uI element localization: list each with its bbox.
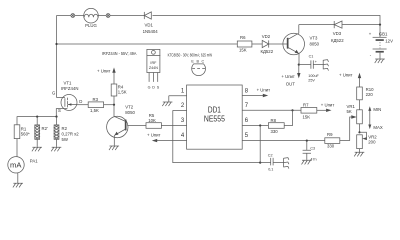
svg-text:0,1: 0,1: [268, 168, 273, 172]
svg-text:+: +: [315, 60, 317, 64]
svg-text:15K: 15K: [303, 114, 311, 119]
svg-text:C3: C3: [310, 146, 315, 150]
text KTC8050 rating: [168, 53, 213, 58]
svg-text:R9: R9: [327, 132, 333, 137]
arrow MAX: [368, 125, 383, 131]
resistor R9 300: [325, 132, 350, 148]
pin 6: [242, 118, 268, 126]
ground below C3: [302, 160, 312, 164]
wire left vertical (gate net): [56, 16, 58, 98]
transistor VT3 8050: [283, 25, 320, 65]
resistor R6 15K: [237, 35, 262, 53]
svg-text:D: D: [79, 99, 82, 104]
power arrow pin 8 +Upit: [242, 87, 270, 97]
svg-text:1,5K: 1,5K: [90, 108, 99, 113]
diode VD1 1N5404: [143, 12, 159, 34]
svg-text:D: D: [152, 85, 155, 89]
connector X1: [71, 14, 75, 18]
wire drain to R3: [77, 104, 88, 106]
ground below VT2: [109, 146, 119, 150]
ground below R2': [32, 147, 42, 151]
svg-text:+ Uпит: + Uпит: [147, 132, 161, 137]
connector fork at C1: [323, 60, 328, 71]
node pin6 junction: [259, 124, 261, 126]
svg-text:R2: R2: [62, 126, 68, 131]
svg-text:DD1: DD1: [208, 105, 221, 114]
svg-text:10K: 10K: [148, 118, 156, 123]
ground pin 1: [162, 96, 172, 106]
svg-text:47n: 47n: [310, 157, 316, 161]
svg-text:330: 330: [327, 144, 335, 149]
svg-text:1,5K: 1,5K: [118, 89, 127, 94]
svg-text:+ Uпит: + Uпит: [97, 69, 111, 74]
pin 4: [181, 133, 185, 139]
svg-text:VT1: VT1: [64, 80, 72, 85]
wire gate rail (row 2): [55, 43, 237, 45]
svg-text:C: C: [201, 60, 204, 64]
node pin7/R8 junction: [291, 109, 293, 111]
svg-text:R2': R2': [42, 126, 48, 131]
connector X2: [106, 14, 110, 18]
ground below R2: [51, 147, 61, 151]
svg-text:KTC8050 - 30V; 800mA; 625 mW: KTC8050 - 30V; 800mA; 625 mW: [168, 53, 213, 58]
svg-text:+ Uпит: + Uпит: [257, 87, 271, 92]
wire VT2 base to R5: [127, 125, 146, 127]
svg-text:8050: 8050: [310, 41, 320, 46]
ammeter PA1: [8, 157, 38, 184]
svg-text:560*: 560*: [21, 132, 30, 137]
resistor R8 330: [268, 118, 284, 134]
svg-text:mA: mA: [10, 160, 22, 169]
svg-text:КД522: КД522: [261, 49, 274, 54]
svg-text:VD1: VD1: [145, 23, 154, 28]
svg-text:S: S: [58, 108, 61, 113]
svg-text:G: G: [148, 85, 151, 89]
node VT3 emitter junction: [298, 64, 300, 66]
resistor R3 1,5K: [88, 97, 114, 113]
svg-text:PA1: PA1: [30, 159, 38, 164]
resistor R2': [35, 117, 48, 147]
svg-text:PLUG: PLUG: [85, 23, 97, 28]
package TO-220 IRF Z44N: [147, 49, 160, 89]
svg-text:VT3: VT3: [310, 36, 318, 41]
svg-text:R6: R6: [240, 35, 246, 40]
power arrow +Upit above R4: [97, 67, 116, 84]
capacitor C1 100uF 25V: [299, 54, 323, 82]
resistor R1 560*: [14, 117, 30, 157]
package TO-92 KTC8050: [191, 60, 205, 76]
svg-text:1N5404: 1N5404: [143, 29, 159, 34]
svg-text:100uF: 100uF: [308, 74, 319, 78]
power arrow pin 4 +Upit: [147, 132, 187, 142]
pin 3: [181, 118, 185, 124]
pin 1: [169, 88, 187, 95]
svg-text:IRFZ44N: IRFZ44N: [61, 86, 78, 91]
svg-text:+ Uпит: + Uпит: [281, 74, 295, 79]
connector fork at C2: [284, 158, 289, 169]
svg-text:VD2: VD2: [262, 34, 271, 39]
svg-text:0,27R x2: 0,27R x2: [62, 132, 80, 137]
svg-text:OUT: OUT: [286, 81, 295, 86]
pin 5: [242, 133, 325, 141]
svg-text:Z44N: Z44N: [149, 66, 158, 70]
svg-text:MIN: MIN: [373, 107, 381, 112]
pin 7: [242, 103, 301, 110]
node battery junction: [379, 24, 381, 26]
ground below VR2: [354, 152, 364, 156]
svg-text:8050: 8050: [125, 110, 135, 115]
svg-text:25V: 25V: [308, 79, 315, 83]
node VR1/VR2 junction: [358, 131, 360, 133]
ground below PA1: [13, 183, 23, 187]
resistor R2 0,27R x2 5W: [54, 117, 79, 147]
power arrow above R10 +Upit: [339, 72, 361, 87]
svg-text:GB1: GB1: [379, 31, 388, 36]
resistor R5 10K: [146, 113, 187, 128]
potentiometer VR1 5K: [347, 104, 363, 132]
resistor R4 1,5K: [111, 84, 127, 105]
svg-text:R3: R3: [93, 97, 99, 102]
IC DD1 NE555: [187, 85, 243, 149]
svg-text:VD3: VD3: [333, 31, 342, 36]
ground below battery: [375, 59, 385, 63]
resistor R10 220: [357, 87, 374, 110]
wire pin7 riser to R8: [284, 110, 292, 125]
svg-text:12V: 12V: [385, 39, 393, 44]
mosfet VT1 IRFZ44N: [52, 80, 82, 116]
node pin5/C3/R9 junction: [306, 140, 308, 142]
potentiometer VR2 200: [357, 132, 378, 152]
svg-text:R7: R7: [303, 103, 309, 108]
lamp PLUG: [84, 8, 99, 28]
svg-text:5K: 5K: [347, 109, 352, 114]
svg-text:200: 200: [368, 140, 376, 145]
wire collector rail to battery: [299, 24, 380, 26]
diode VD3 KD522: [331, 21, 344, 43]
wire pin2 to bottom rail: [173, 110, 260, 162]
svg-text:C2: C2: [268, 153, 273, 157]
resistor R7 15K: [301, 103, 317, 120]
svg-text:C1: C1: [309, 54, 314, 58]
source bus wire: [17, 116, 58, 118]
arrow MIN: [368, 106, 381, 125]
node bottom rail junction: [259, 162, 261, 164]
diode VD2 KD522: [261, 34, 288, 54]
svg-text:5W: 5W: [62, 137, 69, 142]
transistor VT2 8050: [107, 105, 136, 146]
svg-text:15K: 15K: [239, 47, 247, 52]
svg-text:IRFZ44N - 55V; 49A: IRFZ44N - 55V; 49A: [102, 51, 137, 56]
pin 2: [173, 103, 187, 110]
capacitor C3 47n: [303, 141, 317, 162]
battery GB1 12V: [369, 25, 393, 59]
text IRFZ44N rating: [102, 51, 137, 56]
svg-text:IRF: IRF: [150, 61, 157, 65]
svg-text:VT2: VT2: [125, 105, 133, 110]
svg-text:NE555: NE555: [204, 115, 225, 124]
power arrow R7 +Upit: [317, 103, 335, 112]
svg-text:220: 220: [366, 92, 374, 97]
svg-text:R8: R8: [271, 118, 277, 123]
pin 8: [245, 88, 249, 94]
wire R9 to VR1 wiper: [350, 115, 357, 140]
svg-text:330: 330: [271, 129, 279, 134]
capacitor C2 0,1: [260, 153, 283, 171]
power arrow OUT +Upit: [281, 65, 300, 87]
svg-text:+ Uпит: + Uпит: [321, 103, 335, 108]
svg-text:КД522: КД522: [331, 38, 344, 43]
svg-text:MAX: MAX: [373, 125, 382, 130]
wire pin6 to bottom rail vertical: [259, 126, 261, 163]
wire top rail: [57, 16, 381, 25]
svg-text:+ Uпит: + Uпит: [339, 72, 353, 77]
node R3/R4/VT2 junction: [113, 104, 115, 106]
